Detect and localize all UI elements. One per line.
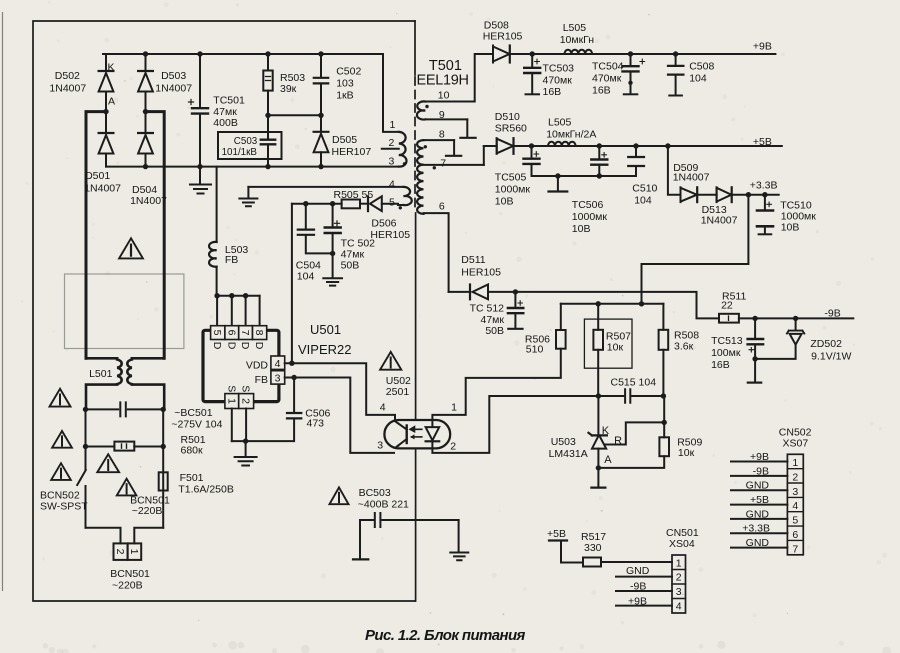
svg-text:FB: FB	[225, 254, 238, 266]
pin 7	[239, 326, 253, 340]
wire: +3.3B rail	[732, 194, 779, 196]
svg-text:D501: D501	[85, 170, 110, 182]
svg-text:C503: C503	[234, 136, 258, 147]
net labels CN502	[742, 451, 770, 549]
svg-text:K: K	[602, 425, 610, 437]
svg-text:L505: L505	[548, 117, 572, 129]
wire: CN501 GND	[616, 576, 672, 578]
svg-text:+5B: +5B	[753, 136, 772, 148]
svg-text:10: 10	[438, 89, 450, 101]
svg-text:1N4007: 1N4007	[130, 195, 167, 207]
svg-text:U501: U501	[310, 322, 341, 337]
LED (opto emitter)	[431, 420, 433, 427]
diode D505	[320, 115, 322, 131]
zener ZD502	[795, 318, 797, 330]
svg-text:104: 104	[689, 73, 707, 85]
svg-text:~220В: ~220В	[132, 505, 163, 517]
warning triangle	[330, 487, 349, 504]
svg-text:L501: L501	[89, 368, 113, 380]
transformer T501 primary winding 1-3	[383, 54, 399, 132]
inductor L501 (common-mode choke)	[86, 358, 164, 409]
resistor R506	[560, 304, 562, 330]
wire: 5V filter return bus	[532, 175, 637, 177]
svg-text:HER105: HER105	[370, 229, 410, 241]
capacitor C510	[635, 146, 637, 156]
svg-text:SR560: SR560	[495, 123, 527, 135]
svg-text:S: S	[240, 385, 252, 392]
svg-text:1N4007: 1N4007	[155, 83, 192, 95]
op-amp U1: IC U501 VIPER22 body	[203, 330, 279, 401]
svg-text:+5B: +5B	[547, 528, 566, 540]
svg-text:3.6к: 3.6к	[674, 341, 694, 353]
junction	[83, 444, 88, 449]
shunt regulator U503 LM431A	[597, 396, 599, 435]
wire: +5B rail	[514, 145, 782, 147]
svg-text:C510: C510	[632, 183, 657, 195]
wire: CN502 GND	[731, 489, 787, 491]
wire: CN502 +5B	[731, 504, 787, 506]
pin numbers CN502	[792, 457, 798, 555]
diode D504	[145, 112, 147, 133]
svg-text:D505: D505	[332, 134, 357, 146]
diode D501	[105, 112, 107, 133]
transformer T501 secondary winding 8-7-6	[424, 139, 455, 141]
wire: U503 ref	[606, 422, 665, 444]
svg-text:D502: D502	[55, 70, 80, 82]
svg-text:XS04: XS04	[669, 538, 695, 550]
junction	[597, 143, 602, 148]
pin 2 stub	[382, 148, 399, 150]
wire: rectified + rail (top)	[103, 53, 383, 55]
capacitor C504	[305, 204, 307, 229]
svg-text:~BC501: ~BC501	[174, 407, 212, 419]
resistor R501	[114, 442, 134, 451]
svg-text:D510: D510	[495, 111, 520, 123]
svg-text:9.1V/1W: 9.1V/1W	[811, 351, 851, 363]
svg-text:4: 4	[275, 358, 281, 370]
wire: X-cap row	[86, 408, 164, 410]
svg-text:100мк: 100мк	[711, 347, 741, 359]
svg-text:TC504: TC504	[592, 61, 624, 73]
wire: divider top bus	[561, 303, 664, 305]
svg-text:C515 104: C515 104	[611, 377, 657, 389]
ground (5V return)	[557, 176, 559, 191]
node: pin8 polarity dot	[424, 145, 427, 148]
svg-text:~275V 104: ~275V 104	[171, 419, 222, 431]
svg-text:16В: 16В	[711, 359, 730, 371]
svg-text:1: 1	[225, 398, 237, 404]
wire: source pins to ground	[232, 409, 246, 442]
resistor R508	[662, 304, 664, 330]
svg-text:F501: F501	[180, 472, 204, 484]
pin 4 (VDD)	[271, 356, 285, 369]
junction	[596, 465, 601, 470]
svg-text:A: A	[108, 96, 115, 108]
wire: neutral feed (thick right)	[146, 112, 165, 359]
svg-text:L505: L505	[563, 22, 587, 34]
capacitor TC502	[332, 204, 334, 227]
shield box (light)	[65, 274, 184, 349]
service box around R507	[584, 319, 632, 368]
svg-text:10к: 10к	[607, 342, 624, 354]
wire: snubber node	[268, 114, 321, 116]
connector BCN501 pin 1	[128, 543, 142, 560]
resistor R509	[663, 396, 665, 437]
svg-text:-9B: -9B	[630, 581, 646, 593]
svg-text:330: 330	[584, 542, 602, 554]
junction	[318, 113, 323, 118]
svg-text:VIPER22: VIPER22	[298, 342, 351, 357]
svg-text:10В: 10В	[495, 196, 514, 208]
svg-text:2: 2	[450, 441, 456, 453]
wire: primary pin4 return	[248, 186, 403, 188]
svg-text:10В: 10В	[781, 222, 800, 234]
junction	[265, 51, 270, 56]
junction	[143, 164, 148, 169]
ground (pin 8)	[453, 140, 455, 155]
transformer T501 secondary winding 10-9	[423, 54, 493, 102]
ground (below TC502)	[332, 253, 334, 277]
capacitor TC503	[531, 54, 533, 67]
svg-text:D: D	[239, 342, 251, 350]
junction	[103, 109, 108, 114]
svg-text:1000мк: 1000мк	[495, 184, 531, 196]
svg-text:~220В: ~220В	[112, 580, 143, 592]
wire: U501 drain bus	[217, 295, 260, 297]
junction	[330, 201, 335, 206]
junction	[596, 393, 601, 398]
pin 3 (FB)	[271, 371, 285, 384]
junction	[746, 192, 751, 197]
svg-text:3: 3	[377, 440, 383, 452]
svg-text:22: 22	[721, 300, 733, 312]
wire: R501 row	[86, 409, 164, 446]
svg-text:SW-SPST: SW-SPST	[40, 501, 88, 513]
junction	[265, 113, 270, 118]
junction	[628, 51, 633, 56]
svg-text:+9B: +9B	[750, 451, 769, 463]
svg-text:+5B: +5B	[750, 494, 769, 506]
svg-text:2: 2	[389, 137, 395, 149]
node: pin3 polarity dot	[403, 162, 406, 165]
junction	[289, 361, 294, 366]
junction	[303, 201, 308, 206]
junction	[662, 420, 667, 425]
fuse F501	[162, 447, 164, 528]
svg-text:3: 3	[676, 586, 682, 598]
svg-text:4: 4	[676, 600, 682, 612]
junction	[318, 51, 323, 56]
wire: phase feed (thick left)	[86, 112, 106, 359]
junction	[639, 301, 644, 306]
svg-text:-9B: -9B	[753, 465, 769, 477]
resistor R511	[719, 314, 739, 323]
svg-text:3: 3	[275, 372, 281, 384]
svg-text:101/1кВ: 101/1кВ	[222, 147, 258, 158]
ground (below TC501)	[199, 167, 201, 184]
ground (U503 anode)	[597, 468, 599, 487]
pin 6	[225, 326, 239, 340]
svg-text:3: 3	[792, 486, 798, 498]
node: pin10 polarity dot	[425, 105, 428, 108]
junction	[330, 251, 335, 256]
diode D513	[699, 194, 717, 196]
capacitor C508	[675, 54, 677, 65]
svg-text:XS07: XS07	[783, 438, 809, 450]
svg-text:16В: 16В	[543, 86, 562, 98]
svg-text:C502: C502	[336, 66, 361, 78]
ground (BC503)	[458, 520, 460, 552]
junction	[633, 143, 638, 148]
svg-text:GND: GND	[626, 565, 650, 577]
svg-text:TC505: TC505	[495, 172, 527, 184]
primary-side enclosure frame	[33, 21, 416, 601]
svg-text:1: 1	[390, 119, 396, 131]
svg-text:R: R	[614, 435, 622, 447]
svg-text:4: 4	[389, 179, 395, 191]
svg-text:D: D	[253, 342, 265, 350]
svg-text:GND: GND	[746, 508, 770, 520]
resistor R507	[597, 304, 599, 330]
junction	[291, 375, 296, 380]
warning triangle	[380, 352, 401, 370]
svg-text:16В: 16В	[592, 85, 611, 97]
wire: CN502 +9B	[731, 461, 787, 463]
wire: 3.3V feedback to divider	[642, 195, 749, 304]
warning triangle	[119, 238, 143, 258]
svg-text:TC503: TC503	[543, 63, 575, 75]
wire: CN502 GND	[731, 547, 787, 549]
svg-text:Рис. 1.2. Блок питания: Рис. 1.2. Блок питания	[365, 627, 526, 644]
connector CN502 XS07	[787, 454, 803, 555]
svg-text:LM431A: LM431A	[549, 448, 588, 460]
junction	[243, 438, 248, 443]
svg-text:1: 1	[128, 549, 140, 555]
svg-text:39к: 39к	[280, 83, 297, 95]
capacitor C502	[320, 54, 322, 77]
svg-text:510: 510	[526, 344, 544, 356]
svg-text:TC501: TC501	[213, 95, 245, 107]
svg-text:D: D	[225, 342, 237, 350]
svg-text:473: 473	[307, 418, 325, 430]
pin 2 (S)	[239, 394, 254, 409]
svg-text:C508: C508	[689, 61, 714, 73]
svg-text:R505 55: R505 55	[334, 189, 374, 201]
wire: aux VDD node row	[292, 203, 342, 205]
capacitor C515	[598, 395, 663, 397]
ground (-9B filter)	[754, 359, 756, 382]
capacitor TC505	[531, 146, 533, 158]
svg-text:T1.6A/250B: T1.6A/250B	[178, 483, 233, 495]
svg-text:1: 1	[792, 457, 798, 469]
svg-text:+9B: +9B	[628, 596, 647, 608]
svg-text:HER105: HER105	[461, 267, 501, 279]
svg-text:GND: GND	[746, 537, 770, 549]
svg-text:D503: D503	[161, 70, 186, 82]
svg-text:5: 5	[211, 330, 223, 336]
junction	[243, 293, 248, 298]
capacitor C503 (in box)	[218, 132, 282, 159]
diode D510	[483, 146, 485, 165]
svg-text:104: 104	[297, 271, 315, 283]
svg-text:1N4007: 1N4007	[701, 215, 738, 227]
warning triangle	[52, 431, 72, 448]
ground (pin 9)	[466, 119, 468, 137]
junction	[143, 109, 148, 114]
svg-text:50В: 50В	[341, 260, 360, 272]
svg-text:7: 7	[239, 330, 251, 336]
svg-text:4: 4	[380, 402, 386, 414]
svg-text:9: 9	[439, 109, 445, 121]
svg-text:50B: 50B	[485, 325, 504, 337]
wire: -9B feed	[515, 292, 719, 319]
wire: +9B rail	[512, 53, 776, 55]
pin 5	[211, 326, 225, 340]
svg-text:5: 5	[389, 197, 395, 209]
optocoupler U502 body	[384, 420, 450, 448]
junction	[597, 173, 602, 178]
svg-text:GND: GND	[746, 480, 770, 492]
junction	[793, 316, 798, 321]
pin numbers CN501	[676, 557, 682, 612]
svg-text:BC503: BC503	[359, 487, 391, 499]
svg-text:7: 7	[792, 543, 798, 555]
junction	[229, 293, 234, 298]
svg-text:7: 7	[440, 157, 446, 169]
svg-text:680к: 680к	[181, 445, 204, 457]
diode D509	[680, 187, 682, 202]
wire: riser to 3.3V diodes	[668, 146, 681, 195]
ground (U501 source)	[245, 441, 247, 456]
svg-text:8: 8	[439, 128, 445, 140]
svg-text:1N4007: 1N4007	[673, 172, 710, 184]
svg-text:2: 2	[676, 572, 682, 584]
svg-text:D: D	[211, 342, 223, 350]
svg-text:10мкГн: 10мкГн	[560, 34, 595, 46]
transistor Q1 (opto phototransistor)	[406, 426, 408, 444]
svg-text:1000мк: 1000мк	[572, 211, 608, 223]
svg-text:6: 6	[225, 330, 237, 336]
svg-text:10В: 10В	[572, 223, 591, 235]
junction	[555, 173, 560, 178]
svg-text:HER105: HER105	[483, 31, 523, 43]
wire: CN501 +9B	[616, 605, 672, 607]
svg-text:HER107: HER107	[332, 146, 372, 158]
diode D506	[360, 203, 367, 205]
junction	[197, 164, 202, 169]
node: pin5 polarity dot	[399, 206, 402, 209]
switch BCN502 SW-SPST	[85, 447, 87, 470]
junction	[762, 192, 767, 197]
svg-text:4: 4	[792, 500, 798, 512]
capacitor TC512	[514, 292, 516, 307]
connector CN501 XS04	[672, 555, 686, 613]
svg-text:K: K	[108, 62, 115, 74]
svg-text:ZD502: ZD502	[810, 338, 842, 350]
inductor L505 (9V)	[565, 50, 593, 54]
svg-text:6: 6	[439, 201, 445, 213]
svg-text:104: 104	[634, 195, 652, 207]
svg-text:1кВ: 1кВ	[336, 90, 353, 102]
junction	[265, 164, 270, 169]
svg-text:+9B: +9B	[753, 41, 772, 53]
node: pin7 polarity dot	[433, 166, 436, 169]
diode D502	[105, 54, 107, 71]
junction	[661, 393, 666, 398]
ground (primary return)	[247, 187, 249, 198]
svg-text:1: 1	[676, 557, 682, 569]
svg-text:3: 3	[389, 156, 395, 168]
svg-text:-9B: -9B	[824, 308, 840, 320]
svg-text:2501: 2501	[386, 386, 410, 398]
svg-text:TC513: TC513	[711, 335, 743, 347]
svg-text:~400B 221: ~400B 221	[358, 498, 409, 510]
diode D508	[492, 46, 494, 63]
isolation barrier (dashed core line)	[414, 77, 416, 211]
svg-text:103: 103	[336, 78, 354, 90]
resistor R503	[267, 54, 269, 71]
wire: -9B rail	[739, 317, 853, 319]
junction	[161, 407, 166, 412]
svg-text:470мк: 470мк	[543, 75, 573, 87]
svg-text:VDD: VDD	[246, 360, 269, 372]
svg-text:TC506: TC506	[572, 199, 604, 211]
junction	[513, 289, 518, 294]
resistor R517	[549, 539, 567, 541]
junction	[143, 51, 148, 56]
junction	[752, 316, 757, 321]
inductor L503	[216, 167, 218, 242]
svg-text:+3.3B: +3.3B	[742, 523, 770, 535]
warning triangle	[117, 479, 137, 496]
svg-text:+3.3B: +3.3B	[750, 180, 778, 192]
svg-text:A: A	[604, 454, 612, 466]
svg-text:FB: FB	[255, 374, 268, 386]
svg-text:8: 8	[253, 330, 265, 336]
wire: FB to opto pin3	[285, 378, 394, 453]
transformer T501 primary winding 4-5	[404, 187, 412, 205]
capacitor C506	[293, 378, 295, 412]
svg-text:1: 1	[451, 402, 457, 414]
svg-text:1N4007: 1N4007	[84, 183, 121, 195]
svg-text:U503: U503	[551, 436, 576, 448]
junction	[83, 407, 88, 412]
svg-text:10мкГн/2А: 10мкГн/2А	[546, 129, 596, 141]
svg-text:BCN501: BCN501	[110, 568, 150, 580]
wire: CN502 -9B	[731, 475, 787, 477]
svg-text:TC 512: TC 512	[470, 303, 505, 315]
svg-text:D511: D511	[461, 254, 485, 266]
connector BCN501 pin 2	[114, 543, 128, 560]
capacitor TC513	[754, 318, 756, 337]
svg-text:1N4007: 1N4007	[49, 83, 86, 95]
svg-text:D506: D506	[371, 218, 396, 230]
junction	[673, 51, 678, 56]
inductor L505 (5V)	[548, 142, 576, 146]
capacitor BC501	[120, 402, 126, 416]
junction	[665, 143, 670, 148]
svg-text:6: 6	[792, 529, 798, 541]
pin 1 (S)	[225, 394, 239, 409]
pin 8	[253, 326, 267, 340]
junction	[197, 51, 202, 56]
capacitor TC506	[598, 146, 600, 158]
junction	[161, 444, 166, 449]
junction	[318, 164, 323, 169]
light arrows	[410, 427, 422, 432]
wire: VDD to aux and opto pin4	[285, 363, 395, 420]
svg-text:2: 2	[240, 398, 252, 404]
